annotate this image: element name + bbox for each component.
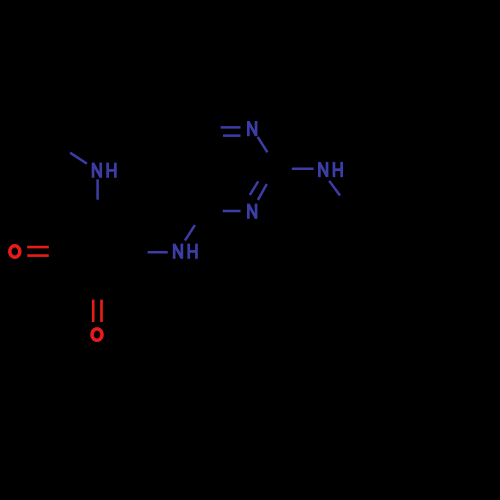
bond C6=N1 main line (blue half) [221, 126, 241, 129]
atom label N6 "NH" (squaramide NH middle) [174, 244, 196, 259]
atom label N3 (pyrimidine bottom N) [248, 204, 256, 219]
atom label N7 "NH" (anilino NH right) [319, 162, 341, 177]
bond CH3-N5 methyl (blue half) [70, 153, 87, 164]
bond C2=O2 right line (red half) [100, 300, 103, 322]
bond N7-CH2 benzyl (blue half) [329, 181, 340, 196]
bond C2=N3 inner line (blue half) [250, 181, 258, 195]
atom label N5 "NH" (methylamino NH top-left) [93, 163, 115, 178]
bond C2=N3 main line (blue half) [258, 184, 267, 200]
bond N6-C4 (blue half) [185, 225, 195, 240]
bond C2-N7 (blue half) [292, 167, 314, 170]
atom label O2 (bottom carbonyl O) [92, 329, 102, 340]
bond N1-C2 (blue half) [258, 137, 268, 152]
bond C6=N1 inner line (blue half) [223, 134, 241, 137]
bond N5-Ca squarate (blue half) [96, 179, 99, 199]
bond C1=O1 upper line (red half) [27, 246, 49, 249]
bond Cb-N6 (blue half) [148, 251, 168, 254]
atom label O1 (left carbonyl O) [10, 246, 20, 257]
bond C2=O2 left line (red half) [92, 300, 95, 322]
atom label N1 (pyrimidine top N) [248, 121, 256, 136]
bond C1=O1 lower line (red half) [27, 254, 49, 257]
bond N3-C4 (blue half) [223, 210, 241, 213]
